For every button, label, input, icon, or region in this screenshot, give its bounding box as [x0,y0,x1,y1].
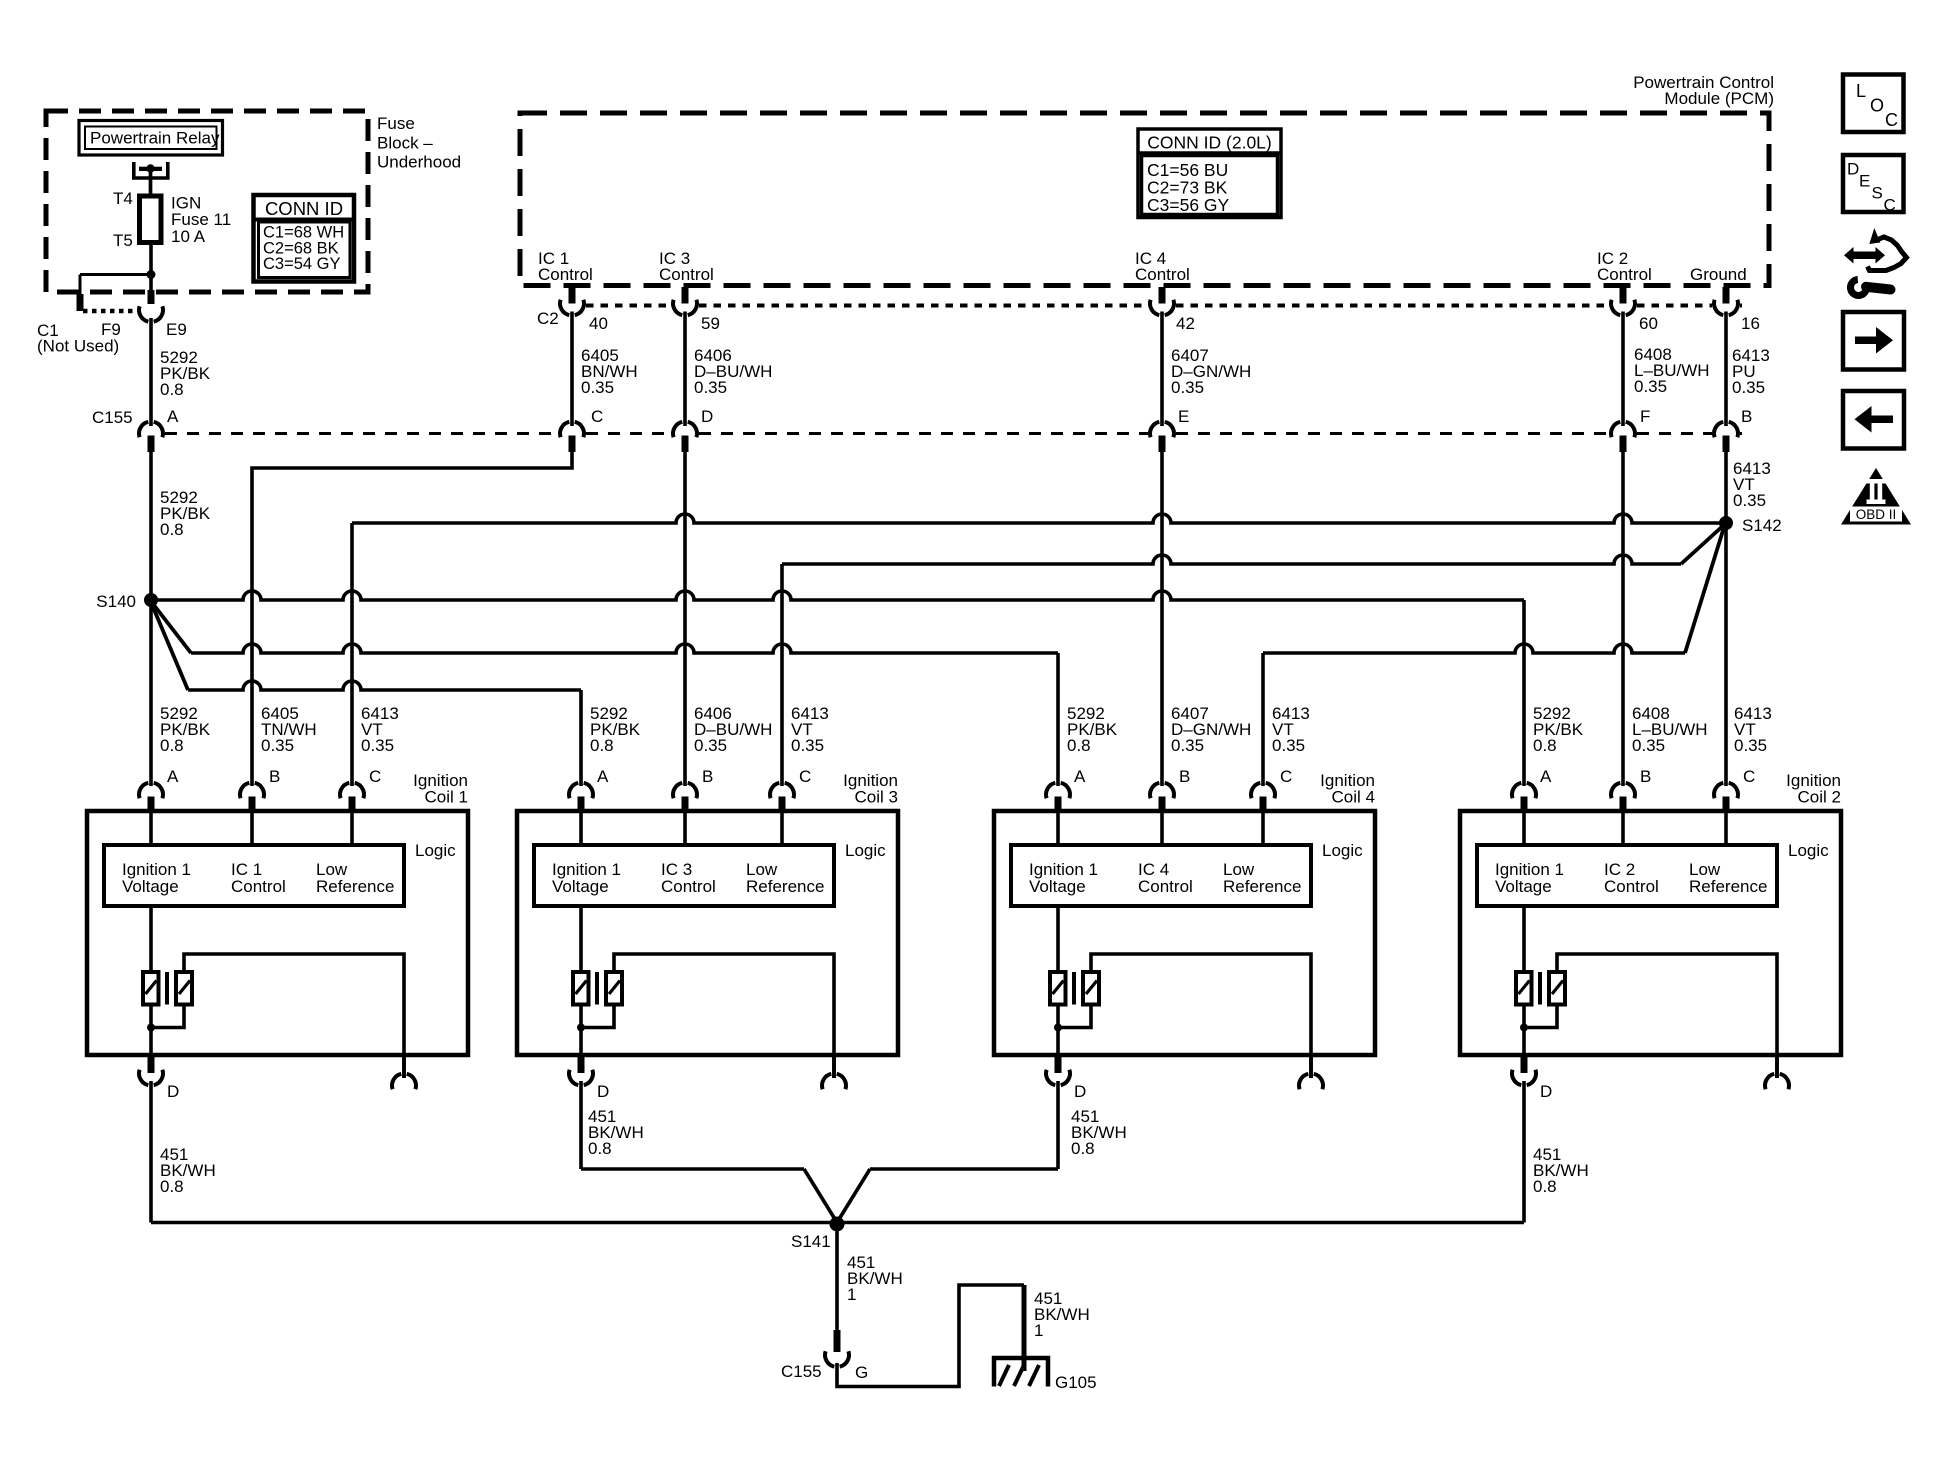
svg-text:D: D [1847,160,1859,179]
svg-text:Coil 2: Coil 2 [1798,788,1841,807]
svg-text:G: G [855,1363,868,1382]
coil 3 secondary bottom wire [581,1003,614,1028]
svg-text:A: A [1540,767,1552,786]
connector C155 pin D stub [682,436,689,453]
coil 3 logic labels [552,860,824,896]
wire 451 bus to coil2-D [151,1221,1524,1225]
label C2 [537,309,559,328]
label wire 6408 L–BU/WH 0.35 (coil) [1632,704,1708,755]
connector C155 pin B [1714,422,1738,437]
svg-text:G105: G105 [1055,1373,1097,1392]
wire 451 coil1-D down [149,1081,153,1223]
ignition coil 2 pin A connector [1512,783,1536,811]
svg-text:Control: Control [1135,265,1190,284]
pin letter F [1640,407,1650,426]
coil 1 secondary top wire [184,954,404,1078]
svg-text:Voltage: Voltage [122,877,179,896]
label Ground [1690,265,1747,284]
coil 4 pin D connector [1046,1055,1070,1085]
ignition coil 1 box [87,811,468,1055]
wire 6413 coil1-C to S142 [352,514,1726,786]
svg-text:60: 60 [1639,314,1658,333]
svg-text:40: 40 [589,314,608,333]
svg-text:D: D [597,1082,609,1101]
wire 5292 E9 to C155-A [149,318,153,426]
svg-text:CONN ID (2.0L): CONN ID (2.0L) [1147,133,1271,153]
label T4 [113,189,133,208]
wire 451 coil4-D to S141 [837,1081,1058,1223]
label C1 (Not Used) [37,321,119,356]
coil 2 primary winding [1516,972,1532,1005]
coil 1 logic block [104,845,404,906]
label wire 6407 D–GN/WH 0.35 (coil) [1171,704,1251,755]
svg-text:Logic: Logic [1788,841,1829,860]
connector C155 pin B stub [1723,436,1730,453]
splice S142 [1719,516,1733,530]
wire 6406 C155-D to coil3-B [683,452,687,786]
svg-text:F: F [1640,407,1650,426]
coil 2 wire logic to winding [1522,906,1526,973]
svg-text:0.8: 0.8 [160,520,184,539]
coil 2 secondary bottom wire [1524,1003,1557,1028]
label: IGN Fuse 11 10 A [171,194,231,246]
wire 6413 coil4-C to S142 [1263,524,1725,786]
svg-text:OBD II: OBD II [1856,507,1897,522]
label wire 5292 PK/BK 0.8 (upper) [160,348,211,399]
svg-text:Coil 1: Coil 1 [425,788,468,807]
svg-text:C: C [591,407,603,426]
svg-text:F9: F9 [101,320,121,339]
PCM pin 40 stub [569,287,576,304]
coil 4 core [1072,972,1076,1005]
label: Fuse Block - Underhood [377,114,461,172]
coil 2 wire to pin D [1522,1005,1526,1056]
svg-text:0.8: 0.8 [588,1139,612,1158]
PCM pin 42 stub [1159,287,1166,304]
svg-text:0.35: 0.35 [1732,378,1765,397]
conn id table (fuse block) [254,195,355,282]
coil 1 winding junction [147,1024,155,1032]
svg-text:C: C [369,767,381,786]
svg-text:0.8: 0.8 [160,736,184,755]
wire 5292 S140 to coil4-A [150,600,1058,786]
label: Powertrain Control Module (PCM) [1633,73,1774,108]
coil 4 internal pin wires [1058,811,1263,845]
svg-text:C: C [1743,767,1755,786]
label IC 3 Control [659,249,714,284]
coil 4 wire to pin D [1056,1005,1060,1056]
svg-text:Voltage: Voltage [552,877,609,896]
svg-text:Control: Control [538,265,593,284]
coil 3 pin letter D [597,1082,609,1101]
svg-text:S142: S142 [1742,516,1782,535]
PCM dashed box [520,113,1769,286]
wire 6413 S142 to coil2-C [1724,523,1728,786]
svg-text:L: L [1856,81,1866,101]
label Ignition Coil 3 [843,771,898,807]
svg-text:0.35: 0.35 [694,378,727,397]
svg-text:O: O [1870,96,1884,116]
wire 451 coil3-D to S141 [581,1081,837,1223]
label T5 [113,231,133,250]
svg-text:Control: Control [231,877,286,896]
coil 2 winding junction [1520,1024,1528,1032]
label Ignition Coil 4 [1320,771,1375,807]
PCM pin 59 stub [682,287,689,304]
svg-text:0.8: 0.8 [1533,1177,1557,1196]
svg-text:Reference: Reference [316,877,394,896]
svg-text:0.35: 0.35 [1272,736,1305,755]
svg-text:D: D [1074,1082,1086,1101]
coil 3 logic block [534,845,834,906]
svg-text:Reference: Reference [1223,877,1301,896]
splice S140 [144,593,158,607]
icon forward arrow box [1843,312,1904,370]
label wire 6405 BN/WH 0.35 [581,346,638,397]
svg-text:S140: S140 [96,592,136,611]
coil 2 internal pin wires [1524,811,1726,845]
svg-text:A: A [167,767,179,786]
svg-text:59: 59 [701,314,720,333]
coil 2 secondary top wire [1557,954,1777,1078]
connector C2 pin 59 [673,300,697,315]
pin number 16 [1741,314,1760,333]
dotted line C1 not used [83,309,137,314]
svg-text:Reference: Reference [1689,877,1767,896]
coil 3 pin letters A B C [597,767,811,786]
ignition coil 3 pin A connector [569,783,593,811]
wire 6413 C155-B to S142 [1724,452,1728,523]
label wire 451 BK/WH 1 (G105) [1034,1289,1090,1340]
coil 3 secondary top wire [614,954,834,1078]
svg-text:0.8: 0.8 [160,1177,184,1196]
connector C155 pin D [673,422,697,437]
coil 1 wire to pin D [149,1005,153,1056]
svg-text:S141: S141 [791,1232,831,1251]
wire 6407 pin42 to C155-E [1160,312,1164,427]
coil 1 primary winding [143,972,159,1005]
label wire 5292 PK/BK 0.8 (coil) [1067,704,1118,755]
wire 6413 coil3-C to S142 [782,524,1725,786]
pin letter A [167,407,179,426]
wire 5292 S140 to coil1-A [149,600,153,786]
icon DESC box [1843,155,1904,215]
coil 2 logic labels [1495,860,1767,896]
ground G105 symbol [994,1358,1048,1387]
coil 2 secondary terminal [1765,1055,1789,1089]
coil 2 core [1538,972,1542,1005]
label G105 [1055,1373,1097,1392]
coil 1 pin letter D [167,1082,179,1101]
splice S141 [830,1217,845,1232]
ignition coil 1 pin A connector [139,783,163,811]
coil 2 pin letter D [1540,1082,1552,1101]
PCM pin 16 stub [1723,287,1730,304]
svg-text:0.8: 0.8 [1071,1139,1095,1158]
coil 4 pin letters A B C [1074,767,1292,786]
coil 3 wire to pin D [579,1005,583,1056]
svg-text:C: C [799,767,811,786]
label E9 [166,320,187,339]
svg-text:Control: Control [1597,265,1652,284]
connector C155 pin F stub [1620,436,1627,453]
svg-text:B: B [702,767,713,786]
PCM pin 60 stub [1620,287,1627,304]
svg-text:0.8: 0.8 [1067,736,1091,755]
svg-text:CONN ID: CONN ID [265,198,343,219]
svg-text:0.35: 0.35 [1171,378,1204,397]
connector C155 pin F [1611,422,1635,437]
wire 6407 C155-E to coil4-B [1160,452,1164,786]
ignition coil 1 pin B connector [240,783,264,811]
label S142 [1742,516,1782,535]
wire 6405 C155-C to coil1-B [252,452,572,786]
ignition coil 1 pin C connector [340,783,364,811]
pin number 42 [1176,314,1195,333]
wire E9 through fuse block edge [149,275,153,293]
label wire 6413 VT 0.35 (coil) [1272,704,1310,755]
svg-text:B: B [1640,767,1651,786]
svg-text:E: E [1178,407,1189,426]
wire 451 S141 to C155-G [835,1224,839,1332]
label wire 5292 PK/BK 0.8 (coil) [1533,704,1584,755]
connector row C155 dashed line [165,432,1742,435]
svg-text:0.35: 0.35 [1171,736,1204,755]
ignition coil 2 pin C connector [1714,783,1738,811]
coil 2 pin D connector [1512,1055,1536,1085]
coil 4 wire logic to winding [1056,906,1060,973]
label S141 [791,1232,831,1251]
svg-text:C2: C2 [537,309,559,328]
relay K: Powertrain Relay box [79,121,223,156]
icon LOC box [1843,75,1904,133]
svg-text:A: A [167,407,179,426]
svg-text:E: E [1859,172,1870,191]
fuse F11: IGN Fuse 11 10A [140,196,162,243]
label C155 [92,408,133,427]
coil 3 wire logic to winding [579,906,583,973]
svg-text:Reference: Reference [746,877,824,896]
label wire 6406 D–BU/WH 0.35 (coil) [694,704,772,755]
connector C155 pin E [1150,422,1174,437]
ignition coil 2 pin B connector [1611,783,1635,811]
pin number 60 [1639,314,1658,333]
connector E9 [139,306,163,321]
label C155 (G row) [781,1362,822,1381]
svg-text:0.35: 0.35 [361,736,394,755]
ignition coil 3 pin B connector [673,783,697,811]
connector C155 pin C [560,422,584,437]
svg-text:Control: Control [1138,877,1193,896]
label IC 1 Control [538,249,593,284]
connector C155 pin A stub [148,436,155,453]
coil 4 secondary bottom wire [1058,1003,1091,1028]
svg-text:Module (PCM): Module (PCM) [1664,89,1774,108]
label wire 5292 PK/BK 0.8 (mid) [160,488,211,539]
coil 1 pin D connector [139,1055,163,1085]
svg-text:Control: Control [661,877,716,896]
ignition coil 4 box [994,811,1375,1055]
wire 5292 C155-A to S140 [149,452,153,600]
label IC 4 Control [1135,249,1190,284]
svg-text:0.8: 0.8 [160,380,184,399]
svg-text:Voltage: Voltage [1495,877,1552,896]
label IC 2 Control [1597,249,1652,284]
label S140 [96,592,136,611]
ignition coil 4 pin B connector [1150,783,1174,811]
svg-text:D: D [701,407,713,426]
label Ignition Coil 1 [413,771,468,807]
svg-text:C: C [1280,767,1292,786]
label wire 451 BK/WH 0.8 (coil4) [1071,1107,1127,1158]
coil 4 pin letter D [1074,1082,1086,1101]
coil 1 secondary winding [176,972,192,1005]
wire 6408 C155-F to coil2-B [1621,452,1625,786]
svg-text:S: S [1872,184,1883,203]
wire 6405 pin40 to C155-C [570,312,574,427]
svg-text:0.35: 0.35 [581,378,614,397]
coil 1 core [165,972,169,1005]
label wire 6413 PU 0.35 [1732,346,1770,397]
coil 3 pin D connector [569,1055,593,1085]
svg-text:Voltage: Voltage [1029,877,1086,896]
label wire 451 BK/WH 0.8 (coil2) [1533,1145,1589,1196]
coil 4 secondary top wire [1091,954,1311,1078]
svg-text:Block –: Block – [377,133,433,152]
pin letter G [855,1363,868,1382]
svg-text:0.35: 0.35 [1632,736,1665,755]
connector C155 pin C stub [569,436,576,453]
coil 3 internal pin wires [581,811,782,845]
coil 4 winding junction [1054,1024,1062,1032]
wire 6408 pin60 to C155-F [1621,312,1625,427]
wire fuse to junction [149,243,153,275]
svg-text:16: 16 [1741,314,1760,333]
pin letter B [1741,407,1752,426]
svg-text:0.35: 0.35 [791,736,824,755]
ignition coil 4 pin A connector [1046,783,1070,811]
label wire 451 BK/WH 0.8 (coil1) [160,1145,216,1196]
wire 451 coil2-D down [1522,1081,1526,1223]
svg-text:B: B [1741,407,1752,426]
svg-text:0.8: 0.8 [1533,736,1557,755]
coil 3 secondary winding [606,972,622,1005]
connector C155 pin A [139,422,163,437]
coil 4 secondary terminal [1299,1055,1323,1089]
icon back arrow box [1843,391,1904,449]
label wire 6413 VT 0.35 (coil) [791,704,829,755]
label Logic (coil 2) [1788,841,1829,860]
svg-text:0.8: 0.8 [590,736,614,755]
pin letter C [591,407,603,426]
wire relay to fuse [149,170,153,196]
junction dot below fuse [147,270,156,279]
svg-text:C: C [1884,196,1896,215]
svg-text:10 A: 10 A [171,227,206,246]
svg-text:0.35: 0.35 [694,736,727,755]
svg-text:T4: T4 [113,189,133,208]
fuse block - underhood (dashed box) [46,111,368,292]
svg-text:A: A [597,767,609,786]
svg-text:D: D [167,1082,179,1101]
coil 4 logic labels [1029,860,1301,896]
svg-text:T5: T5 [113,231,133,250]
connector C155 pin E stub [1159,436,1166,453]
svg-text:Logic: Logic [1322,841,1363,860]
label wire 451 BK/WH 0.8 (coil3) [588,1107,644,1158]
relay output terminal [134,162,168,178]
wire 5292 S140 to coil3-A [150,600,581,786]
label Ignition Coil 2 [1786,771,1841,807]
coil 3 primary winding [573,972,589,1005]
label Logic (coil 3) [845,841,886,860]
pin letter D [701,407,713,426]
connector F9 stub [77,294,84,311]
pin letter E [1178,407,1189,426]
svg-text:Control: Control [659,265,714,284]
svg-text:Underhood: Underhood [377,153,461,172]
ignition coil 2 box [1460,811,1841,1055]
coil 1 secondary terminal [392,1055,416,1089]
svg-text:0.35: 0.35 [1734,736,1767,755]
svg-text:Fuse: Fuse [377,114,415,133]
icon service tool (arrow + part + wrench) [1844,228,1907,295]
ignition coil 3 pin C connector [770,783,794,811]
label wire 6405 TN/WH 0.35 (coil) [261,704,317,755]
coil 3 winding junction [577,1024,585,1032]
conn id table (PCM 2.0L) [1138,129,1281,218]
svg-text:Logic: Logic [845,841,886,860]
svg-text:1: 1 [847,1285,856,1304]
ignition coil 4 pin C connector [1251,783,1275,811]
svg-text:A: A [1074,767,1086,786]
svg-text:42: 42 [1176,314,1195,333]
connector C2 pin 16 [1714,300,1738,315]
svg-text:0.35: 0.35 [1634,377,1667,396]
connector E9 stub [148,290,155,304]
svg-text:Coil 4: Coil 4 [1332,788,1375,807]
label F9 [101,320,121,339]
label wire 6407 D-GN/WH 0.35 [1171,346,1251,397]
label wire 6408 L-BU/WH 0.35 [1634,345,1710,396]
coil 4 secondary winding [1083,972,1099,1005]
coil 2 secondary winding [1549,972,1565,1005]
connector row C2 dashed line [586,304,1742,308]
svg-text:Ground: Ground [1690,265,1747,284]
connector C2 pin 42 [1150,300,1174,315]
pin number 59 [701,314,720,333]
connector C2 pin 60 [1611,300,1635,315]
coil 3 secondary terminal [822,1055,846,1089]
wire branch to F9 [80,275,151,296]
svg-text:C3=56 GY: C3=56 GY [1147,195,1230,215]
svg-text:C155: C155 [781,1362,822,1381]
coil 1 wire logic to winding [149,906,153,973]
label wire 5292 PK/BK 0.8 (coil) [160,704,211,755]
label wire 6406 D-BU/WH 0.35 [694,346,772,397]
coil 2 pin letters A B C [1540,767,1755,786]
coil 3 core [595,972,599,1005]
svg-text:B: B [269,767,280,786]
coil 2 logic block [1477,845,1777,906]
svg-text:Powertrain Relay: Powertrain Relay [90,129,220,148]
label wire 451 BK/WH 1 (S141) [847,1253,903,1304]
svg-text:(Not Used): (Not Used) [37,337,119,356]
coil 1 pin letters A B C [167,767,381,786]
label wire 5292 PK/BK 0.8 (coil) [590,704,641,755]
coil 4 logic block [1011,845,1311,906]
connector C2 pin 40 [560,300,584,315]
